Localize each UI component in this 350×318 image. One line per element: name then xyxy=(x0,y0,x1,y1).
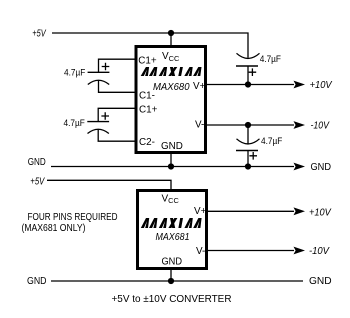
svg-text:C1+: C1+ xyxy=(139,105,158,116)
svg-text:FOUR PINS REQUIRED: FOUR PINS REQUIRED xyxy=(28,212,118,223)
svg-text:-10V: -10V xyxy=(311,120,331,131)
svg-text:GND: GND xyxy=(162,257,183,268)
svg-text:+10V: +10V xyxy=(309,208,332,219)
svg-text:V+: V+ xyxy=(193,81,206,92)
svg-text:C1+: C1+ xyxy=(138,55,157,66)
svg-text:-10V: -10V xyxy=(309,246,330,257)
svg-text:MAX681: MAX681 xyxy=(156,232,190,243)
svg-text:+10V: +10V xyxy=(310,80,333,91)
svg-text:GND: GND xyxy=(309,276,332,287)
svg-text:GND: GND xyxy=(28,157,46,168)
svg-text:4.7µF: 4.7µF xyxy=(261,135,283,146)
svg-text:+5V: +5V xyxy=(30,177,45,188)
svg-text:V-: V- xyxy=(196,246,205,257)
svg-text:GND: GND xyxy=(161,141,183,152)
svg-text:+5V: +5V xyxy=(32,29,46,40)
svg-text:GND: GND xyxy=(311,162,332,173)
svg-text:V-: V- xyxy=(195,120,204,131)
svg-text:MAX680: MAX680 xyxy=(153,82,190,93)
svg-text:+5V to ±10V CONVERTER: +5V to ±10V CONVERTER xyxy=(112,294,232,305)
svg-text:4.7µF: 4.7µF xyxy=(64,66,86,77)
svg-text:C2-: C2- xyxy=(139,137,155,148)
svg-text:V+: V+ xyxy=(194,206,207,217)
svg-text:(MAX681 ONLY): (MAX681 ONLY) xyxy=(22,223,86,234)
svg-text:4.7µF: 4.7µF xyxy=(64,117,86,128)
svg-text:4.7µF: 4.7µF xyxy=(260,53,282,64)
svg-text:GND: GND xyxy=(27,276,47,287)
